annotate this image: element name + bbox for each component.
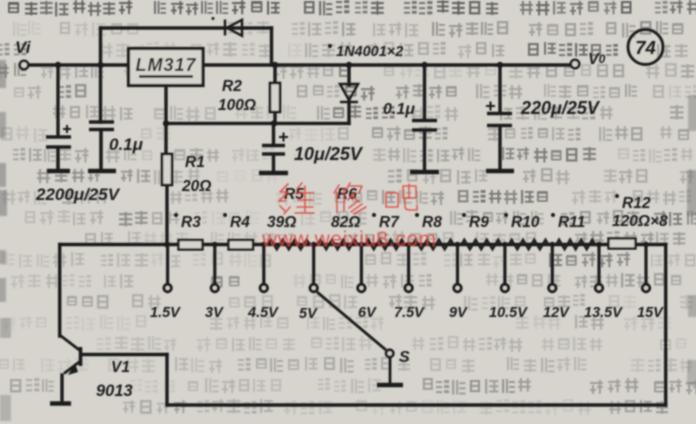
transistor Q1 V1 9013 [60, 335, 81, 375]
svg-text:220μ/25V: 220μ/25V [520, 98, 601, 118]
wire top bypass right vertical [270, 28, 273, 65]
capacitor C3 10u/25V [259, 146, 288, 174]
svg-text:S: S [399, 349, 410, 366]
svg-text:0.1μ: 0.1μ [109, 135, 144, 154]
svg-text:R9: R9 [469, 214, 489, 231]
plus sign C1 [63, 125, 71, 133]
svg-text:10.5V: 10.5V [489, 305, 528, 321]
voltage tap labels [150, 305, 664, 322]
svg-text:3V: 3V [205, 305, 224, 321]
svg-text:9V: 9V [449, 305, 468, 321]
wire 220u cap leads [498, 65, 501, 112]
wire LM317 output to Vo [203, 63, 571, 66]
capacitor C1 2200u/25V [46, 137, 71, 171]
wire main input rail Vi to Vo [28, 63, 128, 66]
svg-text:R11: R11 [558, 214, 585, 231]
svg-text:R10: R10 [511, 214, 540, 231]
IC U1 LM317 regulator box [129, 49, 204, 86]
svg-text:R4: R4 [230, 214, 250, 231]
svg-text:LM317: LM317 [135, 55, 196, 75]
ground bar (emitter) [50, 401, 71, 406]
svg-text:4.5V: 4.5V [247, 305, 279, 321]
capacitor C2 0.1u (input) [88, 122, 116, 171]
wire top bypass left vertical [99, 28, 102, 122]
resistor R1 box [162, 154, 172, 185]
svg-text:www.weixiu8.com: www.weixiu8.com [261, 228, 437, 251]
plus sign C3 [279, 133, 288, 142]
resistor R8 zigzag [413, 240, 454, 250]
svg-text:6V: 6V [358, 305, 377, 321]
wire top bypass horizontal [101, 26, 272, 29]
junction dots on chain rail taps [212, 242, 649, 248]
resistor R6 zigzag [318, 240, 358, 250]
labels R3 R4 row [174, 186, 668, 231]
wire bottom rail [167, 403, 666, 406]
svg-text:2200μ/25V: 2200μ/25V [35, 185, 121, 204]
svg-text:120Ω×8: 120Ω×8 [612, 213, 668, 230]
svg-text:R1: R1 [185, 154, 205, 171]
label 1N4001 x2 [328, 44, 403, 60]
switch S wiper arm [317, 292, 386, 350]
svg-text:20Ω: 20Ω [181, 178, 211, 195]
page number badge 74 [628, 30, 663, 65]
svg-text:13.5V: 13.5V [584, 305, 623, 321]
svg-text:R3: R3 [181, 214, 201, 231]
capacitor C5 220u/25V [486, 114, 514, 172]
wire LM317 ADJ pin [164, 86, 167, 155]
plus sign C5 [486, 102, 495, 111]
svg-text:5V: 5V [299, 306, 318, 322]
diode D2 protection (vertical, cathode bottom) [340, 84, 358, 102]
wire base to bottom rail [81, 353, 167, 356]
wire 10u cap leads [272, 123, 275, 144]
svg-text:12V: 12V [543, 305, 570, 321]
switch S contact [386, 350, 393, 357]
svg-text:10μ/25V: 10μ/25V [294, 144, 364, 164]
svg-text:V0: V0 [588, 51, 606, 68]
resistor R9 zigzag [462, 240, 501, 250]
resistor R11 zigzag [556, 240, 595, 250]
resistor R10 zigzag [509, 240, 548, 250]
junction dots on main rail [55, 62, 503, 248]
svg-text:R2: R2 [222, 78, 242, 95]
resistor R7 zigzag [365, 240, 404, 250]
resistor R12 box [609, 239, 636, 249]
wire left drop to transistor collector [58, 245, 61, 337]
svg-text:0.1μ: 0.1μ [383, 101, 415, 118]
wire emitter lead [60, 375, 63, 401]
resistor R3 box [179, 240, 203, 250]
svg-text:74: 74 [635, 37, 656, 58]
resistor R4 box [229, 240, 254, 250]
switch S common lead and bar [389, 358, 392, 385]
tap wires and terminals [164, 245, 650, 292]
wire right rail vertical [664, 245, 667, 406]
resistor R5 zigzag [268, 240, 310, 250]
wire 0.1u cap2 leads [423, 65, 426, 119]
resistor R2 box [270, 83, 280, 112]
diode D1 protection (top, cathode left) [212, 17, 243, 36]
wire 2200u cap feed [56, 65, 59, 135]
wire ADJ rail horizontal [166, 122, 349, 125]
svg-text:V1: V1 [111, 359, 130, 376]
capacitor C4 0.1u (output) [410, 121, 439, 173]
wire R2 leads [273, 65, 276, 83]
watermark brand glyphs (red outline) [279, 183, 417, 214]
svg-text:1N4001×2: 1N4001×2 [336, 44, 403, 60]
wire diode D2 leads [347, 65, 350, 85]
svg-text:R12: R12 [622, 195, 651, 212]
svg-text:100Ω: 100Ω [218, 97, 256, 114]
svg-text:1.5V: 1.5V [150, 305, 181, 321]
terminal Vo [571, 60, 579, 68]
wire R1 bottom lead [165, 185, 168, 245]
svg-text:7.5V: 7.5V [394, 305, 425, 321]
svg-text:9013: 9013 [96, 382, 133, 400]
terminal Vi [20, 61, 28, 69]
svg-text:Vi: Vi [15, 38, 32, 57]
wire chain rail [60, 243, 666, 246]
svg-text:15V: 15V [637, 305, 664, 321]
